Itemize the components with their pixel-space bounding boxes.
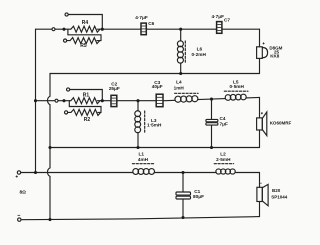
- svg-text:R1: R1: [83, 92, 90, 98]
- svg-text:7μF: 7μF: [220, 122, 228, 127]
- svg-text:R2: R2: [84, 117, 91, 123]
- svg-text:R4: R4: [82, 20, 89, 26]
- svg-text:4·7μF: 4·7μF: [135, 15, 148, 20]
- svg-text:KK8: KK8: [270, 54, 279, 59]
- svg-text:R5: R5: [80, 43, 87, 49]
- svg-text:2·5mH: 2·5mH: [216, 157, 231, 162]
- svg-text:1·5mH: 1·5mH: [147, 123, 162, 128]
- svg-text:40μF: 40μF: [152, 84, 163, 89]
- svg-text:L1: L1: [139, 152, 145, 157]
- svg-text:C4: C4: [220, 116, 226, 121]
- svg-text:C6: C6: [148, 21, 154, 26]
- svg-text:SP1044: SP1044: [271, 195, 288, 200]
- svg-text:25μF: 25μF: [109, 86, 120, 91]
- svg-text:0·2mH: 0·2mH: [192, 52, 207, 57]
- svg-text:B20: B20: [272, 188, 281, 193]
- svg-text:80μF: 80μF: [193, 194, 204, 199]
- svg-text:L6: L6: [197, 46, 203, 51]
- svg-text:4mH: 4mH: [138, 157, 149, 162]
- svg-text:KO60MRF: KO60MRF: [270, 120, 292, 125]
- svg-text:0·5mH: 0·5mH: [230, 84, 245, 89]
- svg-text:8Ω: 8Ω: [20, 190, 27, 195]
- svg-text:4·7μF: 4·7μF: [211, 14, 224, 19]
- svg-text:L2: L2: [220, 152, 226, 157]
- svg-text:L4: L4: [176, 79, 182, 84]
- svg-text:1mH: 1mH: [174, 85, 185, 90]
- svg-text:C7: C7: [224, 18, 230, 23]
